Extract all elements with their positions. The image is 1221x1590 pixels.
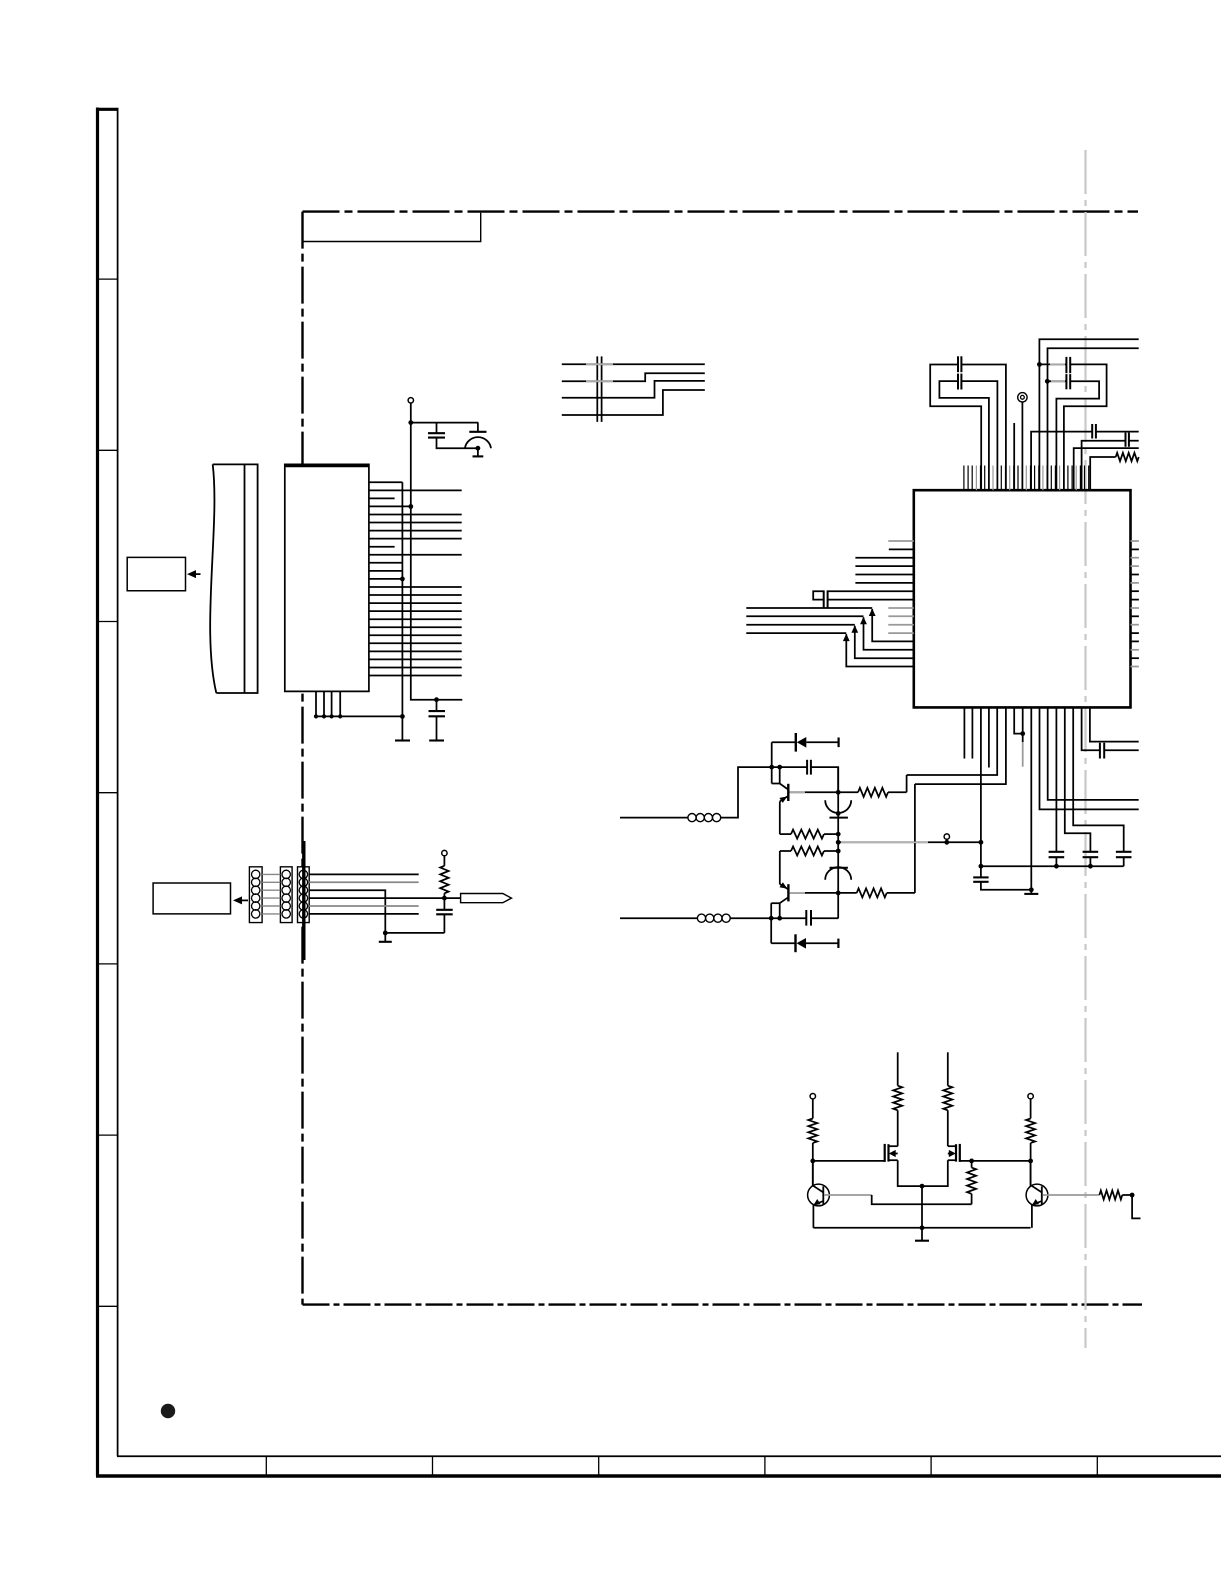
arrow into B1 (190, 573, 201, 575)
resistor R11 (1099, 1191, 1122, 1200)
node on line B (408, 504, 413, 509)
ground G1 (401, 716, 403, 740)
capacitor C8 plates (823, 590, 825, 607)
wire Q4 base gray (1043, 1194, 1099, 1196)
border outer top cap (96, 108, 119, 111)
CN1 bottom pins (315, 691, 317, 716)
capacitor C3 polarized (477, 423, 479, 432)
net flag label (461, 894, 512, 903)
pin b11 wire right (1048, 707, 1139, 800)
resistor R9 drain M2 (947, 1110, 949, 1146)
wire hook net3 (961, 381, 997, 490)
connector CN1 body (285, 464, 369, 691)
IC U1 right pin stubs (1131, 540, 1139, 542)
connector CN2 contact circles (252, 870, 260, 878)
pin b5 wire (907, 707, 998, 775)
wire hook net4 (939, 381, 989, 490)
terminal mark T2 double circle (1018, 393, 1027, 402)
capacitor C5a plates (1065, 357, 1067, 373)
transistor Q2 emitter (780, 884, 789, 889)
node bus A junction (400, 577, 405, 582)
highlight Q1 collector gray (790, 791, 806, 793)
flex cable symbol (213, 464, 258, 693)
capacitor C17 (805, 910, 807, 926)
resistor R5 (838, 892, 857, 894)
IC U1 left pin wires (889, 548, 914, 550)
connector CN2 col2 outline (280, 867, 292, 923)
CN2 wire row3 (309, 890, 385, 933)
wire base rail Q2 (730, 917, 807, 919)
node line B cap branch (408, 420, 413, 425)
wire net A (1039, 363, 1066, 365)
wire line7 (1074, 448, 1139, 490)
resistor R6 (812, 1099, 814, 1119)
pin b1 (963, 707, 965, 758)
wire L1 to base node (721, 767, 772, 818)
resistor R1 line (1090, 457, 1116, 490)
highlight mid rail gray (841, 841, 928, 843)
mosfet M1 (884, 1144, 886, 1162)
wire collector rail to ground net (838, 841, 981, 843)
boundary dash-dot top (303, 210, 1139, 212)
wire Q3 base jog (872, 1195, 972, 1204)
CN2 wire row5 gray (309, 905, 419, 907)
bus crossing highlights (586, 363, 613, 365)
wire source rail (898, 1160, 948, 1186)
capacitor C15 polarized (837, 767, 839, 918)
border outer thick bottom (96, 1474, 1221, 1478)
connector CN2 links (262, 873, 280, 875)
bus crossing double line (596, 356, 598, 422)
ground G2 (1029, 887, 1034, 892)
transistor Q4 circle (1026, 1184, 1048, 1206)
transistor Q3 internals (822, 1186, 824, 1204)
IC U1 body (914, 490, 1131, 707)
ground G4 (384, 933, 386, 942)
terminal circle T4 (810, 1094, 815, 1099)
capacitor C18 (443, 898, 445, 910)
wires with direction arrows (746, 607, 872, 609)
input wire 2 (620, 917, 697, 919)
caps bottom rail (981, 865, 1124, 867)
resistor R2 (791, 830, 824, 839)
pin b13 to C10 (1065, 707, 1091, 851)
arrow into B2 (236, 899, 248, 901)
border outer thick left (96, 108, 99, 1477)
capacitor C11 (1116, 851, 1132, 853)
diode D2 (770, 918, 772, 943)
wire center tail (921, 1186, 923, 1241)
capacitor C5b plates (1065, 374, 1067, 389)
capacitor C12 plates (1099, 743, 1101, 759)
resistor R4 (838, 791, 858, 793)
node V2 (1045, 379, 1050, 384)
boundary dash-dot left (301, 212, 303, 1305)
wire Q3 collector (812, 1161, 814, 1186)
block box B1 (127, 557, 185, 590)
wire C18 return (385, 932, 444, 934)
pin b2 (971, 707, 973, 758)
wire output stub (1132, 1195, 1140, 1218)
border bottom scale ticks (265, 1456, 267, 1476)
wire line5 with C6 (1031, 432, 1092, 490)
pin b15 with C12 (1082, 707, 1100, 750)
boundary label box (303, 213, 481, 242)
mosfet M2 (959, 1144, 961, 1162)
input wire 1 (620, 817, 688, 819)
wire hook net1 (961, 365, 1006, 491)
transistor Q2 base jog (780, 897, 789, 903)
connector CN2 col3 outline (298, 867, 310, 923)
bus wires W1-W4 (562, 363, 705, 365)
pin b6 wire (915, 707, 1006, 784)
IC U1 top pin stubs (963, 466, 965, 491)
capacitor C1 (436, 700, 438, 711)
CN2 wire row1 (309, 873, 419, 875)
capacitor C9 (1049, 851, 1065, 853)
pin b10 wire right (1040, 707, 1139, 809)
wire Q4 collector (1030, 1161, 1032, 1186)
resistor R3 (791, 847, 824, 856)
pin b7 jog (1014, 707, 1023, 733)
inductor L1 (688, 814, 696, 822)
pin b9 long (1030, 707, 1032, 894)
wire net B (1047, 380, 1066, 382)
highlight net B gray (1051, 380, 1065, 382)
wire V2 top rail (1048, 348, 1139, 490)
CN2 wire row4 main (309, 897, 460, 899)
pin b3 long to ground net (980, 707, 982, 877)
wire Q3 emitter (812, 1205, 814, 1228)
capacitor C13 on ground net (973, 876, 988, 878)
wire gate M1 (813, 1160, 885, 1162)
capacitor C2 (436, 423, 438, 434)
CN1 bottom rail (316, 715, 402, 717)
block box B2 (153, 883, 230, 914)
resistor R7 (1030, 1099, 1032, 1119)
ground G3 (915, 1240, 929, 1242)
terminal circle T5 (1028, 1094, 1033, 1099)
pin b16 wire right (1090, 707, 1139, 741)
wire Q4 emitter (1031, 1205, 1033, 1228)
wire hook net2 (930, 365, 981, 491)
CN1 terminal line B (411, 403, 463, 700)
wire cap branch top (411, 422, 479, 424)
resistor R8 drain M1 (897, 1110, 899, 1146)
capacitor C14 (806, 760, 808, 775)
transistor Q1 base jog (771, 767, 773, 783)
IC U1 left gray stubs (888, 540, 914, 542)
bottom rail (813, 1227, 1030, 1229)
inductor L2 (697, 914, 705, 922)
node C1 top (434, 697, 439, 702)
diode D1 (771, 742, 773, 767)
border left scale ticks (99, 278, 118, 280)
capacitor C16 polarized (830, 867, 848, 869)
pin b12 to C9 (1055, 707, 1057, 851)
terminal circle T6 (442, 850, 447, 855)
transistor Q2 bar (787, 884, 789, 901)
wire C8 net (828, 590, 914, 592)
CN2 wire row6 (309, 913, 419, 915)
resistor R12 (443, 856, 445, 866)
page divider dash-dot gray (1084, 150, 1086, 1348)
boundary dash-dot bottom (303, 1303, 1143, 1305)
transistor Q1 emitter (780, 796, 789, 802)
wire C14 right (811, 767, 838, 792)
transistor Q2 collector (788, 892, 838, 894)
capacitor C4a plates (957, 356, 959, 372)
CN1 pin bus A (401, 482, 403, 716)
resistor R10 (971, 1194, 973, 1205)
terminal circle T3 (944, 834, 949, 839)
registration dot (161, 1404, 175, 1418)
wire C17 right (811, 917, 838, 919)
transistor Q3 circle (808, 1184, 830, 1206)
pin stub xtal (1013, 423, 1015, 490)
boundary solid segment at connector CN2 (302, 841, 305, 960)
transistor Q4 internals (1041, 1186, 1043, 1204)
border inner thin left (117, 109, 119, 1456)
CN2 wire row2 gray (309, 881, 419, 883)
highlight net A gray (1050, 363, 1065, 365)
highlight Q2 collector gray (790, 892, 806, 894)
pin b4 (988, 707, 990, 767)
border inner thin bottom (117, 1455, 1221, 1457)
wire V1 top rail (1039, 339, 1138, 490)
wire base rail Q1 (772, 766, 807, 768)
transistor Q1 collector (788, 791, 838, 793)
pin b8 (1022, 707, 1024, 742)
wire line6 with C7 (1082, 441, 1126, 490)
capacitor C10 (1083, 851, 1099, 853)
transistor Q1 bar (787, 784, 789, 801)
capacitor C4b plates (957, 374, 959, 390)
pin b14 to C11 (1073, 707, 1124, 851)
connector CN2 col1 outline (249, 867, 262, 923)
wire gate M2 (960, 1160, 1031, 1162)
terminal circle T1 (408, 398, 413, 403)
connector CN1 thick top edge (285, 464, 369, 467)
connector CN1 pin wires (369, 481, 403, 483)
node V1 (1037, 362, 1042, 367)
wire Q3 base gray (825, 1194, 872, 1196)
